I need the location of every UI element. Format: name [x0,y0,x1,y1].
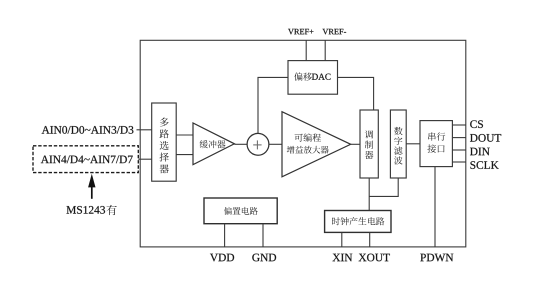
wire PGA to modulator [351,143,360,145]
wire VREF+ to offset DAC [305,40,307,60]
pin label VREF+ [288,29,313,35]
pin label XOUT [359,254,390,262]
serial interface block [420,121,452,167]
wire offset DAC to modulator [338,77,374,110]
pin label PDWN [420,254,453,262]
programmable gain amplifier triangle [282,112,351,177]
wire clock generator to XIN pin [341,232,343,247]
wire VREF- to offset DAC [324,40,326,60]
wire serial interface to DOUT pin [452,137,465,139]
label PGA line2 [287,146,329,154]
pin label DIN [470,148,490,155]
bias circuit block [204,198,277,224]
label serial interface [428,132,445,140]
pin label GND [252,254,276,262]
wire bias circuit to GND pin [262,224,264,247]
wire summing node to PGA [269,143,282,145]
wire multiplexer to buffer (lower) [176,154,193,156]
pin label CS [470,120,483,128]
wire serial interface to PDWN pin [434,167,436,247]
offset DAC block [288,61,338,95]
wire digital filter to serial interface [406,143,420,145]
wire buffer to summing node [234,143,247,145]
wire AIN4..7 input to multiplexer [138,158,151,160]
modulator block [360,110,378,178]
wire serial interface to CS pin [452,124,465,126]
label clock generator [332,217,384,225]
wire AIN0..3 input to multiplexer [137,129,152,131]
pin label DOUT [470,134,501,142]
label buffer [200,140,226,148]
multiplexer block [152,103,177,181]
wire clock generator to XOUT pin [369,232,371,247]
wire multiplexer to buffer (upper) [176,134,193,136]
pin label XIN [333,254,353,261]
pin label VREF- [323,29,347,35]
wire bias circuit to VDD pin [224,224,226,247]
wire serial interface to DIN pin [452,149,465,151]
wire offset DAC to summing node [258,77,288,133]
label bias circuit [224,207,258,215]
pin label AIN0/D0~AIN3/D3 [42,126,134,134]
pin label VDD [210,254,234,262]
chip outline U1 MS1243 [140,40,466,247]
pin label SCLK [470,161,498,169]
label PGA line1 [295,133,321,141]
plus sign of summing node [253,144,261,146]
wire serial interface to SCLK pin [452,161,465,163]
annotation text MS1243有 [67,206,106,214]
digital filter block [390,110,406,178]
label offset DAC [294,72,312,80]
pin label AIN4/D4~AIN7/D7 [41,156,133,164]
annotation arrow (MS1243 only) [88,174,95,188]
dashed box around AIN4..7 (MS1243 only) [33,146,138,173]
clock generator block [325,211,391,233]
buffer amplifier triangle [193,123,234,165]
summing node circle [247,133,269,155]
wire digital filter joining modulator wire [369,178,398,196]
wire modulator to clock generator [368,178,370,211]
